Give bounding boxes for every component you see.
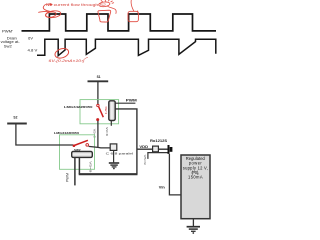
annotation red oval on pulse1: [45, 10, 61, 18]
wire Q1 drain stub down: [110, 121, 112, 126]
svg-text:VDD: VDD: [139, 145, 149, 149]
transistor Q2 GaN FET package: [72, 151, 93, 157]
wire S1 down to SW3: [97, 81, 99, 104]
wire Q1 gate to PWM: [115, 102, 135, 104]
annotation red rectangle on pulse3: [128, 11, 138, 21]
switch SW2 left terminal: [73, 144, 76, 147]
svg-text:Sw2: Sw2: [4, 44, 12, 48]
svg-text:LMG3422R050: LMG3422R050: [64, 105, 93, 109]
svg-text:PWM: PWM: [66, 173, 70, 183]
annotation red curve into pulse2 scribble: [108, 6, 117, 14]
ground below power supply: [187, 227, 200, 232]
power supply PS1 text: [183, 156, 208, 180]
IC U1 green outline box LMG3422R050 upper: [80, 100, 119, 124]
annotation red curve from top into rectangle: [131, 0, 138, 14]
switch SW3 lever: [99, 107, 104, 117]
svg-text:6V: 6V: [28, 36, 33, 40]
svg-text:Vin: Vin: [159, 185, 165, 189]
switch SW2 lever: [74, 140, 88, 145]
svg-text:No current flow through S2: No current flow through S2: [46, 2, 107, 7]
svg-text:6V-(0.2mA×10³): 6V-(0.2mA×10³): [49, 59, 85, 63]
svg-text:SW 3: SW 3: [104, 106, 108, 114]
switch SW2 right terminal: [86, 144, 89, 147]
ground below capacitor: [109, 163, 119, 167]
wire capacitor to ground: [113, 150, 115, 162]
wire drain voltage waveform trace: [37, 39, 216, 56]
svg-text:150mA: 150mA: [188, 175, 203, 180]
annotation red trapezoid on pulse2: [98, 10, 111, 22]
svg-text:PWM': PWM': [2, 28, 13, 33]
wire S2 down and right to SW2: [16, 124, 73, 146]
svg-text:S1: S1: [97, 75, 101, 79]
switch SW3 bottom terminal: [96, 118, 99, 121]
wire PWM' waveform trace: [22, 14, 217, 31]
svg-text:Ro1212S: Ro1212S: [150, 139, 167, 143]
wire plug down to power supply Vin: [169, 154, 181, 195]
wire PS to ground: [192, 219, 194, 226]
svg-text:LMG3422R050: LMG3422R050: [54, 131, 79, 135]
wire Q2 gate stub down: [74, 157, 76, 185]
switch SW3 open terminal: [97, 104, 99, 106]
wire Q2 source down: [78, 157, 80, 174]
IC U2 green outline box LMG3422R050 lower: [60, 135, 95, 170]
wire Ro1212S output to plug: [158, 148, 167, 150]
wire bottom rail: [79, 173, 138, 175]
svg-text:V5=9: V5=9: [143, 155, 147, 166]
transistor Q1 GaN FET package: [109, 101, 115, 121]
wire Q1 source right and down to bottom rail: [115, 109, 137, 174]
annotation red arrow doodle: [38, 4, 50, 12]
svg-text:V5=9: V5=9: [88, 161, 92, 173]
annotation red ellipse on drain notch: [54, 47, 70, 60]
svg-text:4.8 V: 4.8 V: [28, 49, 38, 53]
connector J1 plug symbol: [168, 145, 170, 154]
svg-text:PWM: PWM: [126, 99, 137, 103]
capacitor C1 square: [110, 144, 117, 151]
power supply PS1 box: [181, 155, 210, 219]
wire VDD rail: [137, 148, 153, 150]
svg-text:C 6.8 paralel: C 6.8 paralel: [106, 151, 134, 155]
IC U3 Ro1212S dc-dc square: [153, 146, 159, 152]
svg-text:S2: S2: [13, 116, 17, 120]
annotation red starburst around S2: [98, 1, 110, 7]
wire SW3 bottom down to junction: [97, 121, 99, 148]
wire return line with stub: [148, 153, 168, 159]
wire SW2 to junction to capacitor: [89, 146, 111, 148]
svg-text:V3=6: V3=6: [105, 127, 109, 136]
